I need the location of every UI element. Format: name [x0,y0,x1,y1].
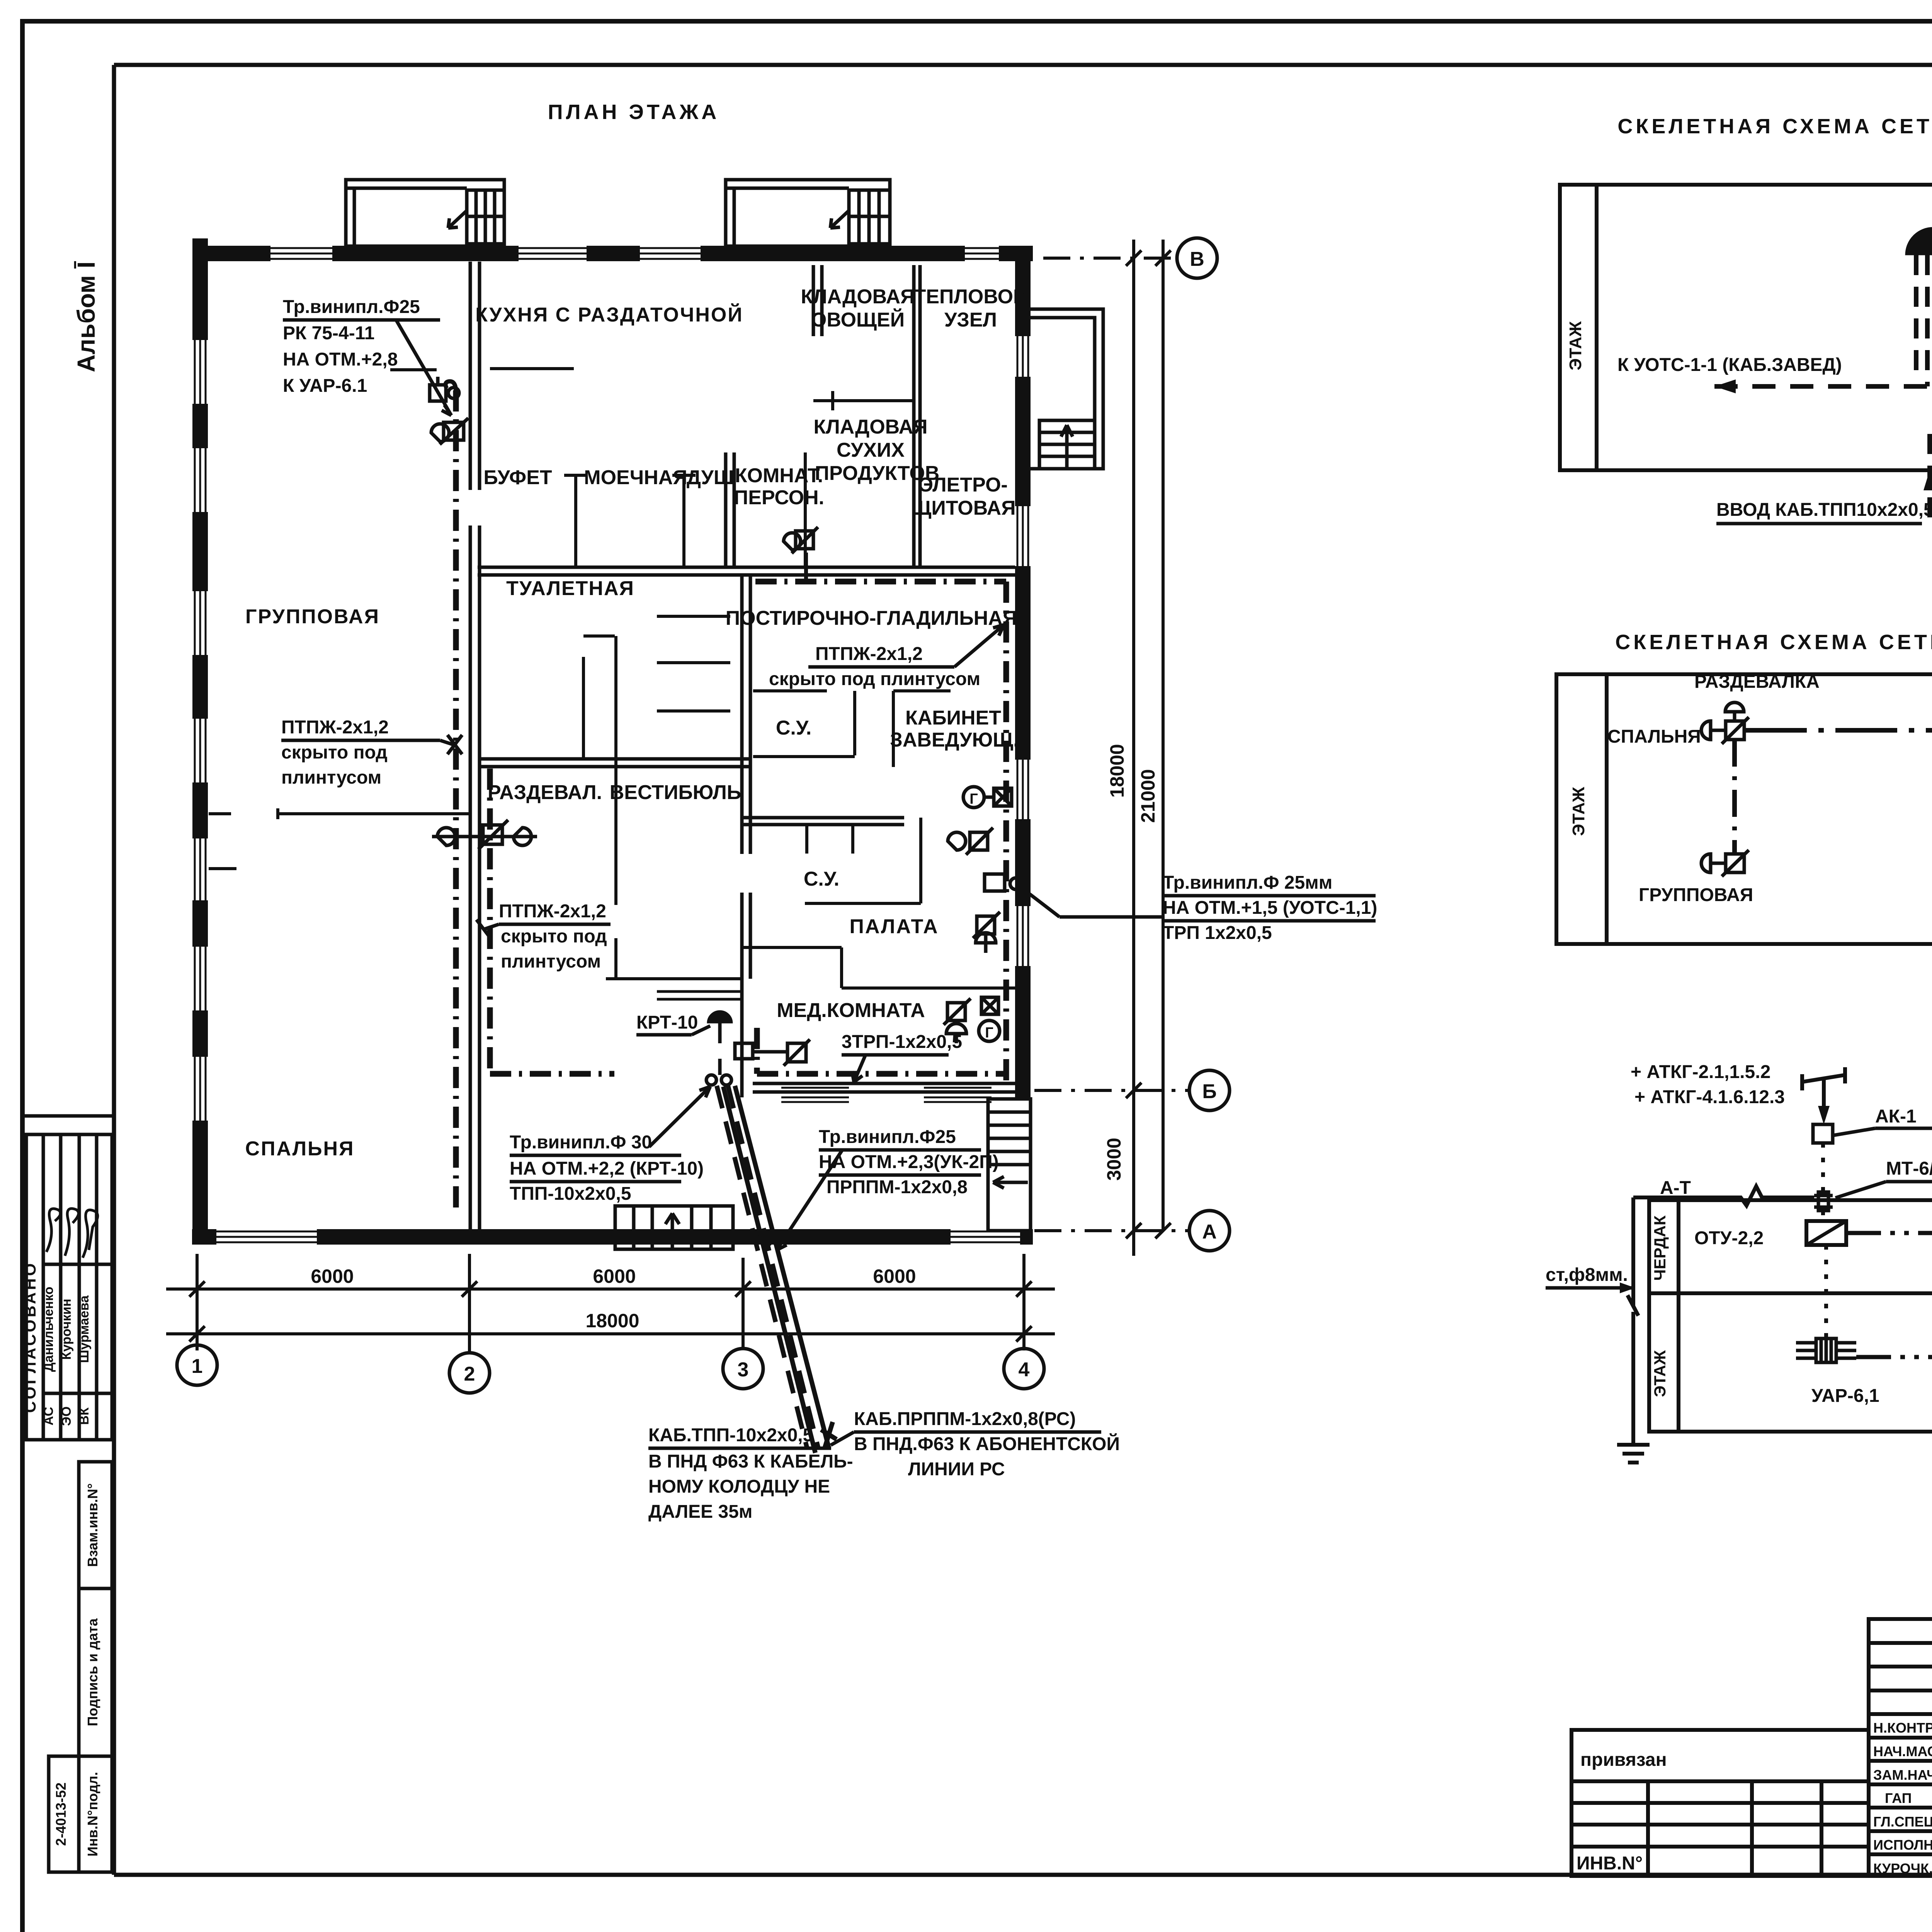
signature table [1869,1619,1932,1876]
palata block walls [740,818,904,825]
telephone scheme box [1560,185,1932,470]
med room south wall (axis B) [753,1083,1031,1092]
svg-text:ОТУ-2,2: ОТУ-2,2 [1694,1228,1764,1248]
svg-text:МТ-6/1: МТ-6/1 [1886,1158,1932,1179]
right wall: speaker+socket [948,832,966,850]
exit cables diagonals [717,1086,837,1453]
kladovaya ovoshch west wall [813,265,822,336]
svg-text:+ АТКГ-4.1.6.12.3: + АТКГ-4.1.6.12.3 [1634,1087,1785,1107]
wall W2 kladovaya/teplovoy [914,265,920,567]
drop to UAR [1824,1245,1828,1338]
svg-text:ИСПОЛН.: ИСПОЛН. [1873,1837,1932,1853]
svg-text:Курочкин: Курочкин [59,1299,74,1360]
svg-text:ЛИНИИ РС: ЛИНИИ РС [908,1459,1005,1480]
svg-text:ПЕРСОН.: ПЕРСОН. [734,486,824,509]
MT-6/1 symbol [1814,1192,1833,1211]
svg-text:ЭЛЕТРО-: ЭЛЕТРО- [919,474,1008,496]
toilet south wall W8 [478,759,752,767]
med room bottom run [757,1071,1006,1077]
kitchen serving counter [490,367,574,370]
exterior top wall windows [270,248,999,259]
vestibule east wall W7 [742,575,750,1097]
ground symbol [1617,1445,1650,1463]
main riser [453,390,459,1209]
svg-text:ДАЛЕЕ 35м: ДАЛЕЕ 35м [648,1502,752,1522]
svg-text:Подпись и дата: Подпись и дата [85,1618,100,1726]
svg-text:НА ОТМ.+2,8: НА ОТМ.+2,8 [283,349,398,370]
exterior right wall windows [1017,336,1028,966]
svg-text:ЭТАЖ: ЭТАЖ [1569,787,1588,836]
svg-text:ЧЕРДАК: ЧЕРДАК [1651,1215,1669,1281]
svg-text:3000: 3000 [1103,1138,1125,1180]
svg-text:КОМНАТ.: КОМНАТ. [735,464,823,487]
toilet cabins [582,657,585,759]
lower sidebar cells [49,1462,112,1872]
svg-text:РАЗДЕВАЛ.: РАЗДЕВАЛ. [488,781,602,804]
groupovaya/spalnya wall W5 [209,812,231,815]
svg-text:+ АТКГ-2.1,1.5.2: + АТКГ-2.1,1.5.2 [1631,1062,1770,1082]
svg-text:МОЕЧНАЯ: МОЕЧНАЯ [584,466,687,489]
svg-text:РАЗДЕВАЛКА: РАЗДЕВАЛКА [1694,672,1820,692]
svg-text:1: 1 [192,1355,203,1378]
svg-text:ПЛАН ЭТАЖА: ПЛАН ЭТАЖА [548,100,720,124]
vestibule bottom line [606,977,742,980]
kitchen symbol drop [804,553,808,582]
razdeval pair [432,835,537,838]
right wall: socket+bell [977,916,995,934]
kitchen speaker+socket [431,424,449,442]
stair tower 1 [346,180,504,246]
svg-text:ЩИТОВАЯ: ЩИТОВАЯ [911,497,1015,519]
exterior right wall piers [1015,246,1031,1099]
line to groupovaya [1856,1355,1932,1359]
svg-text:МЕД.КОМНАТА: МЕД.КОМНАТА [777,999,925,1022]
svg-text:КУРОЧК.: КУРОЧК. [1873,1861,1932,1876]
razdevalka node [1701,702,1749,744]
sidebar divider line [22,1114,114,1118]
svg-text:РК 75-4-11: РК 75-4-11 [283,323,374,344]
kitchen south wall W3 [478,567,1015,575]
UAR symbol [1796,1338,1856,1362]
svg-text:ТУАЛЕТНАЯ: ТУАЛЕТНАЯ [506,577,634,600]
svg-text:КРТ-10: КРТ-10 [636,1012,698,1033]
dotted drop to MT [1821,1143,1825,1192]
svg-text:ИНВ.N°: ИНВ.N° [1577,1853,1643,1874]
svg-text:2: 2 [464,1363,475,1385]
svg-text:ЗАВЕДУЮЩ.: ЗАВЕДУЮЩ. [890,729,1019,751]
bottom center porch stair [615,1206,733,1249]
partition dush/komnat W9 [726,452,734,567]
groupovaya bench [209,867,236,870]
partition bufet/moechnaya [574,475,577,567]
exterior top wall piers [193,246,1033,261]
palata/med step wall [740,947,1015,988]
svg-text:скрыто под: скрыто под [501,926,607,947]
svg-text:УЗЕЛ: УЗЕЛ [944,309,997,331]
svg-text:ст,ф8мм.: ст,ф8мм. [1546,1265,1628,1285]
svg-text:СОГЛАСОВАНО: СОГЛАСОВАНО [21,1261,39,1413]
komnat person speaker+socket [784,533,801,550]
svg-text:4: 4 [1019,1359,1030,1381]
svg-text:В ПНД Ф63 К КАБЕЛЬ-: В ПНД Ф63 К КАБЕЛЬ- [648,1451,853,1472]
svg-text:НА ОТМ.+2,2 (КРТ-10): НА ОТМ.+2,2 (КРТ-10) [510,1158,704,1179]
svg-text:6000: 6000 [311,1265,354,1287]
svg-text:скрыто под плинтусом: скрыто под плинтусом [769,669,980,689]
svg-text:ТЕПЛОВОЙ: ТЕПЛОВОЙ [914,285,1028,308]
med group [947,1003,965,1020]
svg-text:привязан: привязан [1580,1750,1667,1770]
svg-text:А: А [1202,1221,1217,1243]
KRT-10x2 cabinet dome [1905,227,1932,255]
svg-text:Г: Г [969,791,978,807]
svg-text:ГЛ.СПЕЦ: ГЛ.СПЕЦ [1873,1814,1932,1830]
sheet inner frame top [114,63,1932,67]
SU1 walls [753,689,827,692]
svg-text:18000: 18000 [1106,744,1128,798]
svg-text:НАЧ.МАС.: НАЧ.МАС. [1873,1743,1932,1759]
svg-text:А-Т: А-Т [1660,1178,1691,1198]
line to BPS [1846,1231,1932,1235]
svg-text:УАР-6,1: УАР-6,1 [1811,1386,1879,1406]
svg-text:ЭТАЖ: ЭТАЖ [1566,321,1585,370]
svg-text:ОВОЩЕЙ: ОВОЩЕЙ [811,308,905,331]
svg-text:ГРУППОВАЯ: ГРУППОВАЯ [1639,885,1753,905]
svg-text:БУФЕТ: БУФЕТ [483,466,552,489]
svg-text:Данильченко: Данильченко [41,1287,56,1372]
kitchen box+circle [430,385,446,401]
svg-text:21000: 21000 [1137,769,1159,823]
svg-text:Взам.инв.N°: Взам.инв.N° [85,1483,100,1567]
svg-text:СКЕЛЕТНАЯ СХЕМА СЕТИ РАДИОФИКА: СКЕЛЕТНАЯ СХЕМА СЕТИ РАДИОФИКАЦИИ ОТ АБО… [1615,630,1932,654]
cable entry arrow [1923,470,1932,490]
main vertical wall W1 [470,262,480,1231]
svg-text:Г: Г [985,1025,993,1041]
exterior left wall windows [195,340,206,1121]
sheet inner frame bottom [114,1873,1932,1877]
svg-text:С.У.: С.У. [776,717,811,739]
svg-text:6000: 6000 [593,1265,636,1287]
stair tower 2 [726,180,890,246]
svg-text:ПТПЖ-2х1,2: ПТПЖ-2х1,2 [815,644,923,664]
svg-text:Б: Б [1202,1080,1216,1103]
shelf in kladovaya [813,399,913,402]
svg-text:СКЕЛЕТНАЯ СХЕМА СЕТИ ТЕЛЕФОНИЗ: СКЕЛЕТНАЯ СХЕМА СЕТИ ТЕЛЕФОНИЗАЦИИ [1617,115,1932,138]
svg-text:ПТПЖ-2х1,2: ПТПЖ-2х1,2 [281,717,389,738]
exterior bottom wall piers [192,1229,1033,1245]
right wall riser [1003,582,1009,1082]
svg-text:КЛАДОВАЯ: КЛАДОВАЯ [801,286,915,308]
razdeval loop vertical [487,769,493,1074]
roof conductor [1628,1186,1814,1445]
svg-text:КАБ.ТПП-10х2х0,5: КАБ.ТПП-10х2х0,5 [648,1425,813,1446]
svg-text:3ТРП-1х2х0,5: 3ТРП-1х2х0,5 [842,1032,962,1052]
svg-text:НА ОТМ.+2,3(УК-2П): НА ОТМ.+2,3(УК-2П) [819,1152,999,1172]
med room west drop [754,1028,760,1074]
svg-text:В ПНД.Ф63 К АБОНЕНТСКОЙ: В ПНД.Ф63 К АБОНЕНТСКОЙ [854,1433,1120,1454]
svg-text:плинтусом: плинтусом [501,951,601,972]
right wall: UK box+circle [985,874,1005,891]
partition moechnaya/dush [682,475,685,567]
svg-text:Н.КОНТР.: Н.КОНТР. [1873,1720,1932,1736]
signatures squiggles [46,1209,61,1252]
svg-text:КАБ.ПРППМ-1х2х0,8(РС): КАБ.ПРППМ-1х2х0,8(РС) [854,1409,1076,1429]
svg-text:Тр.винипл.Ф 25мм: Тр.винипл.Ф 25мм [1163,872,1332,893]
svg-text:2-4013-52: 2-4013-52 [53,1782,69,1846]
right wall: G + xbox [963,787,984,808]
right entrance annex [1031,309,1103,469]
svg-text:ТРП 1х2х0,5: ТРП 1х2х0,5 [1163,923,1272,943]
svg-text:ГРУППОВАЯ: ГРУППОВАЯ [245,605,380,628]
exterior bottom wall windows [216,1231,1020,1242]
svg-text:К УАР-6.1: К УАР-6.1 [283,376,367,396]
svg-text:ТПП-10х2х0,5: ТПП-10х2х0,5 [510,1184,631,1204]
toilet shower shelves [657,615,730,618]
svg-text:ВЕСТИБЮЛЬ: ВЕСТИБЮЛЬ [610,781,742,804]
svg-text:Шурмаева: Шурмаева [77,1295,92,1363]
svg-text:СУХИХ: СУХИХ [837,439,905,461]
svg-text:ПРППМ-1х2х0,8: ПРППМ-1х2х0,8 [827,1177,968,1197]
riser top hook [446,381,456,392]
svg-text:18000: 18000 [585,1310,639,1332]
svg-text:АС: АС [41,1407,56,1425]
razdeval loop horizontal [490,1071,614,1077]
radio scheme box [1556,674,1932,944]
svg-text:ПТПЖ-2х1,2: ПТПЖ-2х1,2 [499,901,606,922]
svg-text:НА ОТМ.+1,5 (УОТС-1,1): НА ОТМ.+1,5 (УОТС-1,1) [1163,898,1377,918]
svg-text:СПАЛЬНЯ: СПАЛЬНЯ [245,1138,355,1160]
svg-text:Инв.N°подл.: Инв.N°подл. [85,1772,100,1856]
svg-text:КУХНЯ С РАЗДАТОЧНОЙ: КУХНЯ С РАЗДАТОЧНОЙ [475,303,743,326]
svg-text:Альбом Ī: Альбом Ī [72,261,100,372]
approval table (soglasovano) [26,1134,112,1440]
svg-text:ПОСТИРОЧНО-ГЛАДИЛЬНАЯ: ПОСТИРОЧНО-ГЛАДИЛЬНАЯ [726,607,1017,629]
AK-1 box [1813,1124,1833,1143]
svg-text:К УОТС-1-1 (КАБ.ЗАВЕД): К УОТС-1-1 (КАБ.ЗАВЕД) [1617,355,1842,375]
svg-text:6000: 6000 [873,1265,916,1287]
svg-text:АК-1: АК-1 [1875,1106,1917,1127]
sheet inner frame left [112,65,116,1875]
svg-text:СПАЛЬНЯ: СПАЛЬНЯ [1607,726,1701,747]
svg-text:ПАЛАТА: ПАЛАТА [849,915,939,938]
svg-text:КЛАДОВАЯ: КЛАДОВАЯ [813,416,927,438]
KRT node [707,1010,733,1023]
vestibule/razdeval partition [614,636,617,905]
partition komnat/kladovaya [804,452,807,567]
svg-text:3: 3 [738,1359,749,1381]
postirochnaya top run [755,579,1006,585]
svg-text:Тр.винипл.Ф25: Тр.винипл.Ф25 [283,297,420,317]
svg-text:КАБИНЕТ: КАБИНЕТ [905,707,1001,729]
svg-text:скрыто под: скрыто под [281,742,388,763]
svg-text:ДУШ: ДУШ [687,466,734,489]
radio main line [1745,728,1932,733]
svg-text:НОМУ КОЛОДЦУ НЕ: НОМУ КОЛОДЦУ НЕ [648,1476,830,1497]
exterior left wall piers [192,238,208,1245]
svg-text:Тр.винипл.Ф 30: Тр.винипл.Ф 30 [510,1132,652,1153]
riser dashed lines [1916,255,1932,526]
splitter box [1806,1221,1846,1245]
svg-text:ЗАМ.НАЧ.: ЗАМ.НАЧ. [1873,1767,1932,1783]
svg-text:ЭО: ЭО [59,1406,74,1426]
svg-text:С.У.: С.У. [804,868,839,890]
tv scheme box [1649,1200,1932,1432]
svg-text:ВК: ВК [77,1407,92,1425]
svg-text:Тр.винипл.Ф25: Тр.винипл.Ф25 [819,1127,956,1147]
to UOTS line [1714,384,1927,389]
svg-text:плинтусом: плинтусом [281,767,381,788]
antenna symbol [1802,1067,1845,1119]
svg-text:ЭТАЖ: ЭТАЖ [1651,1350,1669,1397]
groupovaya branch [1732,740,1737,854]
privyazan table [1571,1730,1869,1876]
annotation leaders/underlines [281,320,1376,1448]
svg-text:ГАП: ГАП [1885,1790,1912,1806]
svg-text:ВВОД КАБ.ТПП10х2х0,5: ВВОД КАБ.ТПП10х2х0,5 [1716,500,1932,520]
bottom right stair [988,1099,1031,1231]
svg-text:В: В [1190,248,1204,270]
